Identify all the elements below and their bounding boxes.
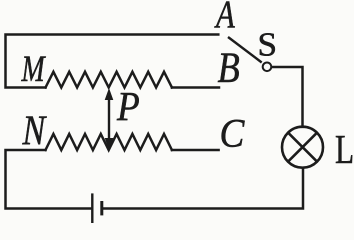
- wire: [103, 168, 303, 209]
- wire: [272, 67, 303, 127]
- resistor M: [46, 72, 172, 88]
- battery short (negative) plate: [100, 201, 103, 215]
- wire: [172, 149, 219, 152]
- svg-text:B: B: [218, 44, 240, 92]
- svg-text:C: C: [220, 110, 246, 155]
- svg-text:P: P: [116, 83, 140, 129]
- resistor N: [46, 134, 172, 150]
- switch S: [228, 37, 271, 71]
- wire: [6, 35, 219, 88]
- wiper arrowhead up: [105, 88, 114, 100]
- wiper arrowhead down: [105, 138, 114, 150]
- lamp cross stroke 1: [288, 133, 317, 162]
- battery long (positive) plate: [91, 193, 93, 223]
- lamp bulb circle: [282, 127, 323, 168]
- lamp cross stroke 2: [288, 133, 317, 162]
- potentiometer wiper P (double-headed arrow): [105, 88, 114, 150]
- battery: [92, 193, 102, 223]
- switch contact circle: [263, 63, 272, 72]
- wire: [172, 86, 219, 89]
- wire: [6, 150, 92, 209]
- switch blade: [228, 37, 262, 63]
- svg-text:N: N: [22, 108, 47, 154]
- svg-text:A: A: [214, 0, 236, 36]
- svg-text:S: S: [258, 26, 278, 63]
- lamp L: [282, 127, 323, 168]
- wiper shaft: [108, 98, 110, 140]
- svg-text:M: M: [21, 48, 47, 89]
- svg-text:L: L: [335, 127, 354, 172]
